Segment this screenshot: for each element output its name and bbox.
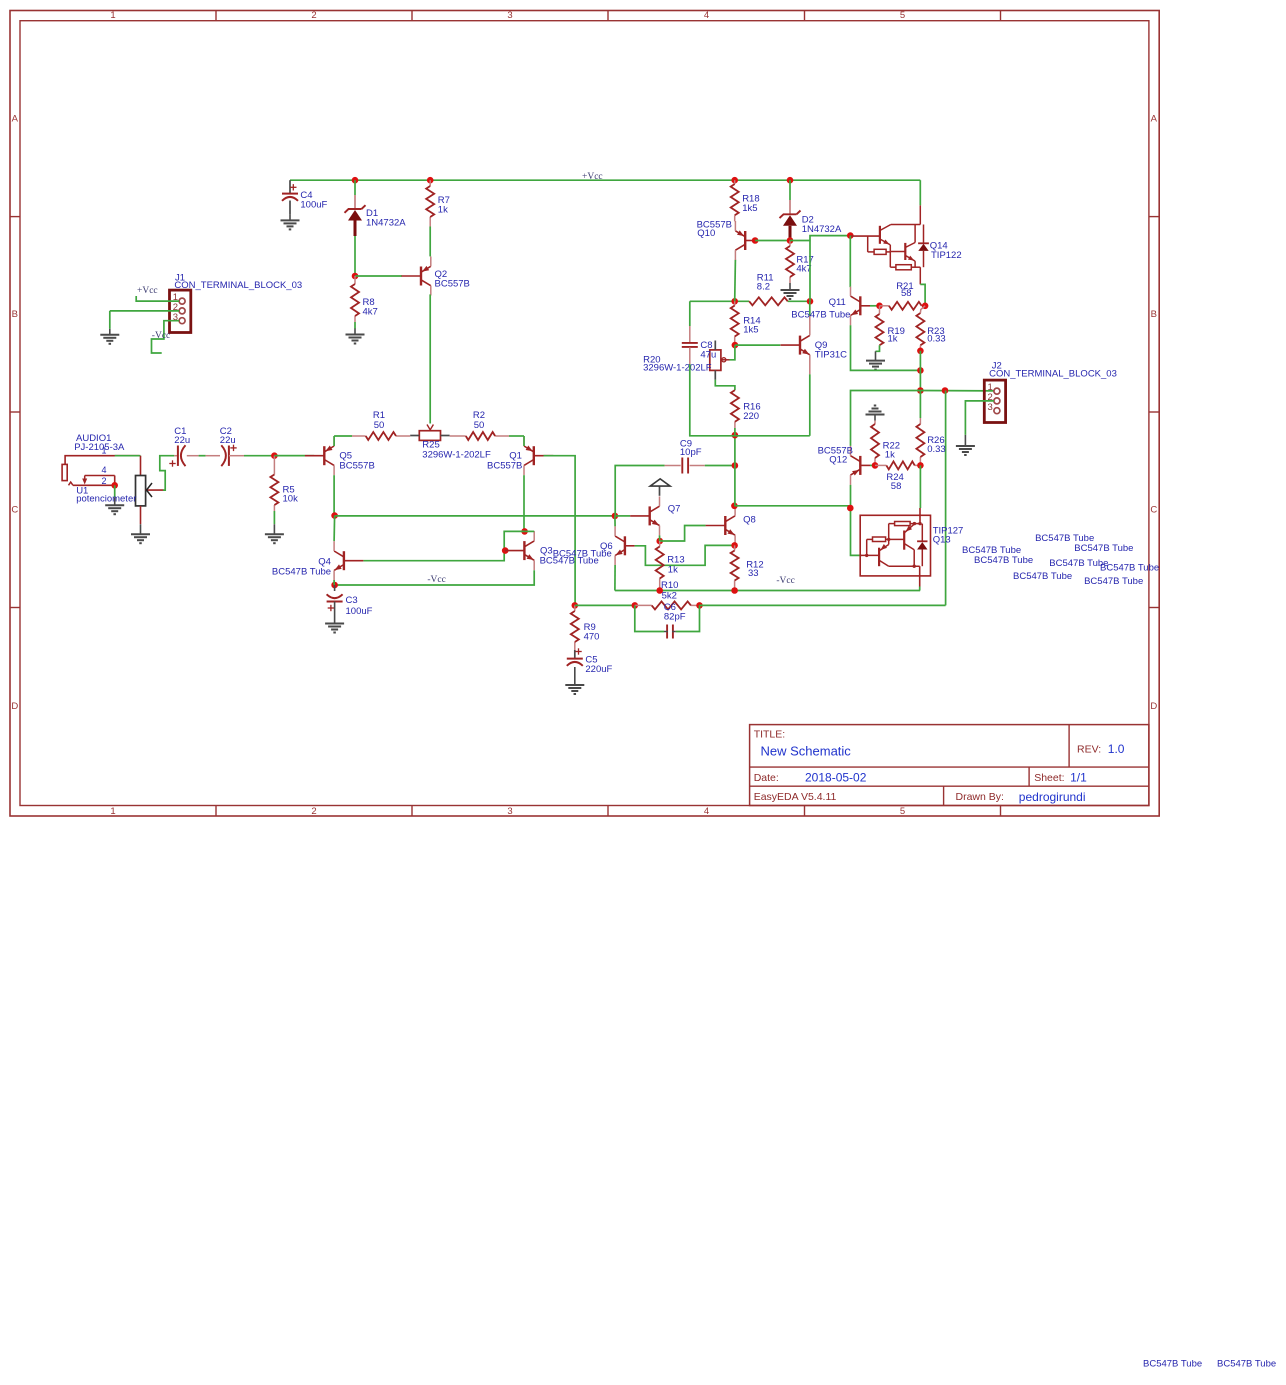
svg-text:BC557B: BC557B bbox=[339, 461, 374, 472]
svg-text:50: 50 bbox=[374, 420, 385, 431]
svg-text:Q6: Q6 bbox=[600, 541, 613, 552]
label R22 bbox=[883, 440, 900, 460]
label R7 bbox=[438, 195, 450, 215]
wire speaker branch down bbox=[945, 391, 947, 606]
label C3 bbox=[346, 595, 373, 617]
label R13 bbox=[667, 555, 684, 576]
label R8 bbox=[363, 297, 378, 318]
label R20 bbox=[643, 355, 712, 374]
label R18 bbox=[742, 194, 759, 214]
diode D2 1N4732A bbox=[780, 200, 801, 239]
node junction R11 right bbox=[807, 298, 814, 305]
net label -Vcc at J1 bbox=[152, 331, 170, 341]
svg-text:58: 58 bbox=[901, 288, 912, 299]
node junction speaker branch bbox=[942, 387, 949, 394]
resistor R2 bbox=[450, 432, 524, 440]
stray label BC547B Tube 3 bbox=[1035, 533, 1094, 544]
wire Q7 emitter to node bbox=[659, 535, 661, 541]
label Q6 bbox=[600, 541, 613, 552]
svg-text:BC547B Tube: BC547B Tube bbox=[1100, 563, 1159, 574]
wire Q4 emitter to node bbox=[333, 580, 335, 585]
label Q9 bbox=[815, 340, 847, 360]
wire R23 to output rail bbox=[919, 351, 921, 391]
wire Q6 collector to node bbox=[614, 516, 616, 527]
label Q7 bbox=[668, 504, 681, 515]
svg-text:+Vcc: +Vcc bbox=[137, 286, 158, 296]
node junction Q11 base bbox=[876, 303, 883, 310]
stray label BC547B Tube bottom 1 bbox=[1143, 1358, 1202, 1369]
wire R21right to R23 bbox=[920, 306, 925, 313]
wire column x735 rail to Q8c bbox=[734, 435, 736, 506]
stray label BC547B Tube 1 bbox=[962, 545, 1021, 556]
transistor Q9 TIP31C bbox=[781, 316, 810, 374]
wire Q1 base to feedback node bbox=[544, 456, 576, 606]
transistor Q1 BC557B bbox=[524, 436, 553, 475]
resistor R19 bbox=[876, 306, 884, 346]
wire output rail to J2 bbox=[920, 390, 994, 392]
svg-text:Date:: Date: bbox=[754, 772, 779, 784]
svg-text:1.0: 1.0 bbox=[1108, 742, 1125, 756]
svg-text:Q10: Q10 bbox=[697, 228, 715, 239]
wire C9 left branch bbox=[615, 466, 664, 516]
wire R7 to Q2 emitter bbox=[429, 227, 431, 257]
svg-text:BC547B Tube: BC547B Tube bbox=[540, 555, 599, 566]
svg-text:-Vcc: -Vcc bbox=[776, 576, 794, 586]
svg-text:PJ-2105-3A: PJ-2105-3A bbox=[74, 442, 125, 453]
svg-text:1k5: 1k5 bbox=[742, 203, 757, 214]
label Q11 bbox=[791, 297, 850, 320]
node junction rail-R7 bbox=[427, 177, 434, 184]
wire Q14base node down to Q11 collector bbox=[849, 236, 851, 287]
title block text Sheet: 1/1 bbox=[1034, 771, 1087, 785]
label C8 bbox=[700, 340, 716, 360]
svg-text:4: 4 bbox=[704, 806, 709, 817]
svg-text:10pF: 10pF bbox=[680, 447, 702, 458]
node junction R24 right bbox=[917, 462, 924, 469]
svg-text:1: 1 bbox=[102, 446, 107, 456]
svg-text:4: 4 bbox=[102, 465, 107, 475]
node junction Q3 base bbox=[502, 547, 509, 554]
wire R11 line bbox=[690, 300, 810, 302]
capacitor C8 47u bbox=[682, 326, 698, 364]
ground C3 bbox=[325, 618, 344, 633]
svg-text:2: 2 bbox=[311, 806, 316, 817]
wire Q1 emitter to R2 bbox=[523, 436, 525, 446]
wire node to Q5 base bbox=[274, 455, 314, 457]
transistor Q2 BC557B bbox=[402, 257, 431, 296]
resistor R12 bbox=[731, 545, 739, 590]
svg-text:BC547B Tube: BC547B Tube bbox=[1143, 1358, 1202, 1369]
title block box bbox=[750, 725, 1149, 806]
stray label BC547B Tube 2 bbox=[974, 555, 1033, 566]
svg-text:R10: R10 bbox=[661, 580, 678, 591]
wire Q2 collector down to R25 wiper bbox=[429, 295, 432, 423]
node junction Q10 base bbox=[752, 237, 759, 244]
wire long tail node to Q7 base bbox=[335, 515, 615, 517]
wire R20 bottom to R16 bbox=[715, 380, 735, 390]
svg-text:1: 1 bbox=[110, 10, 115, 21]
transistor Q13 TIP127 darlington bbox=[860, 508, 930, 587]
node junction R14 bottom bbox=[732, 342, 739, 349]
connector AUDIO1 jack PJ-2105-3A bbox=[62, 456, 139, 486]
wire J2 pin2 to ground bbox=[965, 401, 994, 435]
svg-text:1/1: 1/1 bbox=[1070, 771, 1087, 785]
label Q14 bbox=[930, 240, 962, 260]
transistor Q5 BC557B bbox=[305, 436, 334, 475]
wire Q12 collector up to output rail bbox=[851, 391, 921, 446]
wire D2 node to Q14 node bbox=[790, 240, 811, 242]
svg-text:1k: 1k bbox=[668, 564, 678, 575]
svg-text:B: B bbox=[1151, 309, 1157, 320]
wire J1 pin2 to ground bbox=[110, 311, 179, 329]
resistor R5 bbox=[270, 456, 278, 524]
label Q3 bbox=[540, 546, 612, 567]
resistor R21 58 bbox=[880, 302, 926, 310]
svg-text:3296W-1-202LF: 3296W-1-202LF bbox=[422, 450, 491, 461]
resistor R17 bbox=[786, 241, 794, 284]
label C2 bbox=[220, 426, 236, 446]
title block text TITLE: bbox=[754, 728, 786, 740]
svg-text:10k: 10k bbox=[283, 494, 299, 505]
svg-text:C: C bbox=[1150, 504, 1157, 515]
svg-text:TITLE:: TITLE: bbox=[754, 728, 786, 740]
wire +Vcc rail bbox=[290, 179, 920, 181]
svg-text:BC547B Tube: BC547B Tube bbox=[1013, 571, 1072, 582]
svg-text:Q11: Q11 bbox=[829, 297, 846, 308]
label Q1 bbox=[487, 451, 522, 472]
resistor R1 bbox=[334, 432, 410, 440]
svg-text:Q13: Q13 bbox=[933, 535, 951, 546]
svg-text:Drawn By:: Drawn By: bbox=[956, 791, 1004, 803]
power flag at Q7 collector bbox=[650, 479, 670, 496]
svg-text:33: 33 bbox=[748, 568, 759, 579]
svg-text:EasyEDA V5.4.11: EasyEDA V5.4.11 bbox=[754, 791, 837, 803]
label Q4 bbox=[272, 557, 331, 578]
svg-text:1N4732A: 1N4732A bbox=[802, 224, 842, 235]
svg-text:TIP31C: TIP31C bbox=[815, 349, 847, 360]
svg-text:-Vcc: -Vcc bbox=[152, 331, 170, 341]
label Q12 bbox=[818, 445, 853, 465]
resistor R7 bbox=[426, 180, 434, 226]
pin number 2 AUDIO1 bbox=[102, 476, 107, 486]
svg-text:50: 50 bbox=[474, 420, 485, 431]
svg-text:BC557B: BC557B bbox=[487, 461, 522, 472]
resistor R24 58 bbox=[875, 461, 920, 469]
ground C4 bbox=[281, 214, 300, 229]
title block text New Schematic bbox=[761, 743, 852, 758]
node junction R10 right bbox=[696, 602, 703, 609]
sheet border frame bbox=[10, 11, 1159, 817]
wire rail to D2 bbox=[789, 180, 791, 200]
capacitor C1 22u bbox=[169, 445, 198, 466]
net label +Vcc at J1 bbox=[137, 286, 158, 296]
wire Q5 collector down bbox=[333, 475, 335, 515]
title block text Date: 2018-05-02 bbox=[754, 771, 867, 785]
ground U1 bbox=[131, 524, 150, 543]
node junction R10 left bbox=[632, 602, 639, 609]
node junction Q12 emitter bbox=[847, 505, 854, 512]
label D2 bbox=[802, 214, 842, 235]
frame row/column labels bbox=[11, 10, 1157, 817]
node junction rail-D1 bbox=[352, 177, 359, 184]
label R21 bbox=[896, 281, 913, 299]
svg-text:TIP122: TIP122 bbox=[931, 250, 962, 261]
node junction output column a bbox=[917, 367, 924, 374]
svg-text:1k: 1k bbox=[888, 333, 898, 344]
svg-text:5: 5 bbox=[900, 806, 905, 817]
svg-text:5: 5 bbox=[900, 10, 905, 21]
wire R19 bottom jog bbox=[876, 345, 880, 351]
stray label BC547B Tube 6 bbox=[1013, 571, 1072, 582]
wire Q4 base bbox=[363, 531, 524, 560]
title block text EasyEDA V5.4.11 bbox=[754, 791, 837, 803]
net label -Vcc right bbox=[776, 576, 794, 586]
label R16 bbox=[743, 402, 760, 422]
wire R14node to Q9 base bbox=[735, 344, 780, 346]
svg-text:BC547B Tube: BC547B Tube bbox=[791, 310, 850, 321]
transistor Q10 BC557B bbox=[735, 221, 752, 260]
wire rail corner to Q14 collector bbox=[919, 180, 921, 205]
resistor R18 bbox=[731, 180, 739, 221]
capacitor C2 22u bbox=[206, 445, 244, 466]
node junction AUDIO1 sleeve bbox=[111, 482, 118, 489]
wire Q10 base to node bbox=[752, 240, 755, 242]
svg-text:3: 3 bbox=[507, 10, 512, 21]
node junction Q5c bbox=[331, 512, 338, 519]
svg-text:2018-05-02: 2018-05-02 bbox=[805, 771, 867, 785]
wire Q7 base seg bbox=[615, 515, 630, 517]
svg-text:D: D bbox=[11, 701, 18, 712]
label R25 bbox=[422, 439, 491, 460]
svg-text:100uF: 100uF bbox=[346, 606, 373, 617]
svg-text:220: 220 bbox=[743, 411, 759, 422]
resistor R9 bbox=[571, 605, 579, 658]
ground R5 bbox=[265, 524, 284, 543]
title block text Drawn By: pedrogirundi bbox=[956, 790, 1086, 804]
node junction feedback bbox=[572, 602, 579, 609]
svg-text:2: 2 bbox=[102, 476, 107, 486]
wire Q8c to Q12 node bbox=[734, 505, 850, 507]
svg-text:D: D bbox=[1150, 701, 1157, 712]
wire C1 to C2 bbox=[199, 455, 206, 457]
capacitor C5 220uF bbox=[567, 648, 583, 679]
resistor R8 bbox=[351, 276, 359, 329]
trimmer R25 3296W-1-202LF bbox=[410, 431, 449, 441]
svg-text:3: 3 bbox=[507, 806, 512, 817]
label R11 bbox=[757, 272, 774, 292]
svg-text:pedrogirundi: pedrogirundi bbox=[1019, 790, 1086, 804]
capacitor C3 100uF bbox=[327, 585, 343, 618]
transistor Q3 BC547B bbox=[505, 531, 534, 570]
label Q8 bbox=[743, 515, 756, 526]
svg-text:Q8: Q8 bbox=[743, 515, 756, 526]
resistor R11 8.2 bbox=[749, 297, 788, 305]
transistor Q8 BC547B bbox=[706, 506, 736, 545]
wire Q14 emitter to R21/R23 node bbox=[920, 284, 925, 305]
label C9 bbox=[680, 439, 702, 459]
resistor R13 bbox=[656, 541, 664, 591]
wire J1 pin1 +Vcc bbox=[136, 296, 179, 301]
svg-text:100uF: 100uF bbox=[300, 200, 327, 211]
wire Q5 base bbox=[274, 455, 304, 457]
wire Q11 emitter down bbox=[851, 325, 921, 370]
label R10 bbox=[661, 580, 678, 602]
label AUDIO1 bbox=[74, 433, 125, 453]
wire D1 to node bbox=[354, 236, 356, 276]
node junction Q7 base bbox=[612, 513, 619, 520]
wire Q10base to D2 bbox=[755, 240, 790, 242]
svg-text:CON_TERMINAL_BLOCK_03: CON_TERMINAL_BLOCK_03 bbox=[989, 369, 1117, 380]
ground R19 bbox=[866, 351, 885, 369]
label J2 bbox=[989, 361, 1117, 380]
svg-text:BC557B: BC557B bbox=[435, 278, 470, 289]
stray label BC547B Tube 7 bbox=[1100, 563, 1159, 574]
label J1 bbox=[174, 272, 302, 291]
wire Q6 emitter down to rail bbox=[614, 565, 616, 591]
resistor R23 0.33 bbox=[916, 313, 924, 351]
diode D1 1N4732A bbox=[345, 195, 366, 236]
svg-text:New Schematic: New Schematic bbox=[761, 743, 852, 758]
label Q5 bbox=[339, 451, 374, 472]
svg-text:1k: 1k bbox=[885, 450, 895, 461]
svg-text:3: 3 bbox=[988, 402, 993, 413]
wire Q10 collector down bbox=[734, 260, 737, 302]
wire Q9 collector up bbox=[809, 301, 811, 316]
ground AUDIO1 bbox=[105, 485, 124, 514]
wire feedback to R10 bbox=[575, 604, 635, 606]
node junction Q14 base bbox=[847, 232, 854, 239]
ground C5 bbox=[565, 679, 584, 694]
transistor Q7 BC547B bbox=[630, 496, 659, 535]
node junction Q7e-R13 bbox=[656, 538, 663, 545]
label C5 bbox=[585, 655, 612, 675]
node junction Q4e-C3 bbox=[331, 582, 338, 589]
wire AUDIO1 tip to U1 bbox=[115, 455, 141, 457]
net label -Vcc left bbox=[427, 575, 445, 585]
transistor Q11 BC547B bbox=[851, 286, 871, 325]
node junction R12 bottom bbox=[731, 587, 738, 594]
label R14 bbox=[743, 315, 760, 335]
node junction output rail bbox=[917, 387, 924, 394]
svg-text:1k: 1k bbox=[438, 205, 448, 216]
wire Q7e to Q8 base bbox=[660, 526, 706, 542]
svg-text:REV:: REV: bbox=[1077, 744, 1101, 756]
node junction rail-D2 bbox=[787, 177, 794, 184]
svg-text:4: 4 bbox=[704, 10, 709, 21]
node junction Q8 collector bbox=[731, 503, 738, 510]
wire Q3 collector up bbox=[525, 530, 535, 532]
wire C2 to R5 node bbox=[244, 455, 274, 457]
capacitor C6 82pF loop bbox=[635, 605, 700, 638]
node junction Q12 base bbox=[872, 462, 879, 469]
stray label BC547B Tube 4 bbox=[1074, 543, 1133, 554]
svg-text:5k2: 5k2 bbox=[662, 591, 677, 602]
wire U1 wiper to C1 bbox=[160, 456, 175, 490]
svg-text:A: A bbox=[1151, 113, 1158, 124]
label C6 bbox=[664, 602, 686, 623]
label R5 bbox=[283, 485, 299, 505]
svg-text:2: 2 bbox=[311, 10, 316, 21]
transistor Q6 BC547B bbox=[615, 526, 635, 565]
svg-text:82pF: 82pF bbox=[664, 612, 686, 623]
wire Q3 emitter down to -Vcc rail bbox=[335, 570, 535, 585]
svg-text:potenciometer: potenciometer bbox=[76, 494, 136, 505]
ground R22 flipped bbox=[866, 406, 885, 421]
svg-text:BC547B Tube: BC547B Tube bbox=[1217, 1358, 1276, 1369]
svg-text:22u: 22u bbox=[174, 435, 190, 446]
svg-text:A: A bbox=[12, 113, 19, 124]
wire Q8 collector to node bbox=[734, 505, 736, 507]
capacitor C4 bbox=[282, 184, 298, 214]
label R9 bbox=[584, 622, 600, 642]
svg-text:1: 1 bbox=[110, 806, 115, 817]
wire output rail lower bbox=[615, 590, 920, 592]
svg-text:0.33: 0.33 bbox=[927, 333, 946, 344]
wire Q9 emitter down bbox=[735, 374, 810, 436]
label U1 bbox=[76, 486, 136, 505]
wire R10 right cont bbox=[700, 604, 946, 606]
node junction C9 right bbox=[732, 462, 739, 469]
transistor Q12 BC557B bbox=[851, 446, 871, 485]
label R12 bbox=[746, 560, 763, 580]
ground J1 pin2 bbox=[100, 329, 119, 344]
label R2 bbox=[473, 410, 485, 431]
resistor R22 1k bbox=[871, 421, 879, 466]
transistor Q4 BC547B bbox=[334, 541, 363, 580]
label Q13 bbox=[933, 525, 964, 545]
svg-text:Q7: Q7 bbox=[668, 504, 681, 515]
node junction Q1c-Q3c bbox=[521, 528, 528, 535]
svg-text:8.2: 8.2 bbox=[757, 281, 770, 292]
wire Q11 base to node bbox=[870, 305, 880, 307]
node junction R23 bottom bbox=[917, 348, 924, 355]
label R17 bbox=[796, 255, 813, 275]
connector J1 CON_TERMINAL_BLOCK_03 bbox=[170, 290, 191, 332]
svg-text:Sheet:: Sheet: bbox=[1034, 772, 1064, 784]
svg-text:220uF: 220uF bbox=[585, 664, 612, 675]
label D1 bbox=[366, 208, 406, 229]
wire rail to D1 bbox=[354, 180, 356, 195]
svg-text:3296W-1-202LF: 3296W-1-202LF bbox=[643, 362, 712, 373]
wire C9 right to column bbox=[705, 465, 735, 467]
capacitor C9 10pF bbox=[665, 458, 705, 474]
svg-text:CON_TERMINAL_BLOCK_03: CON_TERMINAL_BLOCK_03 bbox=[174, 280, 302, 291]
wire Q12 base to node bbox=[870, 464, 875, 466]
node junction Q8 emitter bbox=[731, 542, 738, 549]
svg-text:0.33: 0.33 bbox=[927, 444, 946, 455]
label Q2 bbox=[435, 269, 470, 290]
svg-text:C: C bbox=[11, 504, 18, 515]
wire R24right down to Q13 bbox=[919, 465, 921, 508]
wire x810 column bbox=[810, 236, 850, 302]
transistor Q14 TIP122 darlington bbox=[850, 205, 929, 284]
wire R14node to R20 wiper bbox=[730, 345, 735, 360]
trimmer R20 3296W-1-202LF bbox=[710, 341, 730, 380]
svg-text:BC547B Tube: BC547B Tube bbox=[1074, 543, 1133, 554]
label C1 bbox=[174, 426, 190, 446]
node junction R21 right bbox=[922, 303, 929, 310]
stray label BC547B Tube 8 bbox=[1084, 576, 1143, 587]
node junction rail-R18 bbox=[731, 177, 738, 184]
node junction rail735 bbox=[732, 432, 739, 439]
label R24 bbox=[886, 472, 903, 492]
svg-text:4k7: 4k7 bbox=[363, 306, 378, 317]
node junction C2-R5-Q5base bbox=[271, 452, 278, 459]
wire J1 pin3 -Vcc bbox=[152, 321, 180, 353]
wire Q1 collector down bbox=[523, 475, 525, 531]
connector J2 CON_TERMINAL_BLOCK_03 bbox=[984, 380, 1005, 422]
svg-text:470: 470 bbox=[584, 631, 600, 642]
